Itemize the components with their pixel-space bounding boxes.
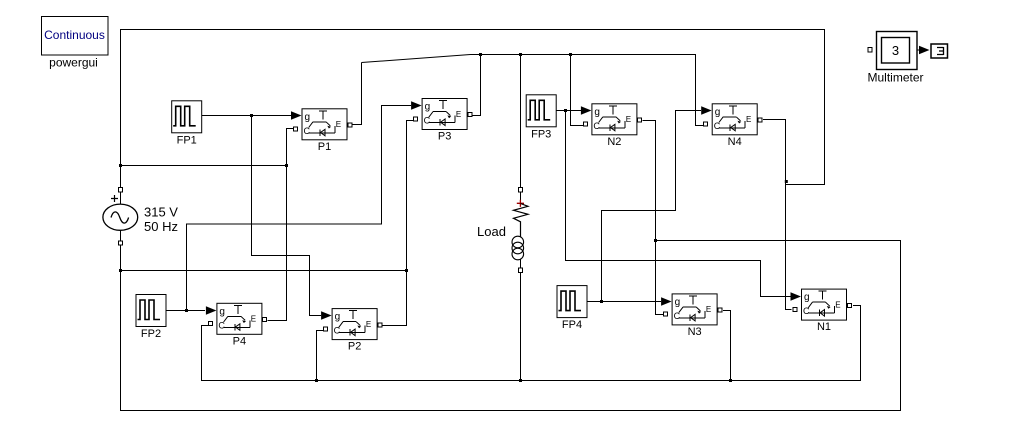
IGBT N1 <box>793 289 851 320</box>
wire load-bottom bus P4.C to N1.E <box>202 306 861 381</box>
wire load-top bus to N4.C <box>471 55 704 126</box>
IGBT P3 <box>414 99 472 130</box>
port square source - <box>118 241 122 245</box>
IGBT P1 <box>294 109 352 140</box>
wire FP4 branch to N4 gate <box>602 111 702 302</box>
node junction <box>405 269 408 272</box>
scope display block <box>931 44 948 58</box>
IGBT P4 <box>208 303 266 334</box>
arrowhead into P3 gate <box>411 101 422 109</box>
arrowhead into P1 gate <box>291 111 302 119</box>
node junction <box>315 379 318 382</box>
svg-text:N3: N3 <box>688 326 702 338</box>
pulse generator FP4 <box>557 286 587 318</box>
node junction <box>654 239 657 242</box>
wire P1.C - P4.E vertical <box>268 129 296 321</box>
svg-text:P1: P1 <box>318 141 331 153</box>
arrowhead into N2 gate <box>581 106 592 114</box>
svg-text:50 Hz: 50 Hz <box>144 219 178 234</box>
node junction <box>729 379 732 382</box>
arrowhead into N4 gate <box>701 106 712 114</box>
port square Load bottom <box>518 268 522 272</box>
node junction <box>564 109 567 112</box>
node junction <box>479 53 482 56</box>
pulse generator FP2 <box>136 295 166 327</box>
svg-text:Multimeter: Multimeter <box>867 71 923 85</box>
svg-text:FP3: FP3 <box>531 128 551 140</box>
arrowhead into N1 gate <box>791 292 802 300</box>
svg-text:P3: P3 <box>438 131 451 143</box>
svg-text:powergui: powergui <box>49 56 98 70</box>
svg-text:P2: P2 <box>348 341 361 353</box>
wire FP3 output to N2 gate <box>556 110 581 112</box>
pulse generator FP1 <box>172 101 202 133</box>
svg-text:N2: N2 <box>607 136 621 148</box>
node junction <box>285 164 288 167</box>
wire FP3 branch to N1 gate <box>566 111 791 297</box>
node junction <box>119 269 122 272</box>
node junction <box>119 164 122 167</box>
AC voltage source 315V 50Hz <box>103 192 178 241</box>
wire load-bottom stub <box>520 273 522 381</box>
svg-text:FP2: FP2 <box>141 328 161 340</box>
node junction <box>600 300 603 303</box>
wire FP1 branch to P2 gate <box>252 116 322 316</box>
powergui block <box>42 17 109 70</box>
svg-text:FP4: FP4 <box>562 319 582 331</box>
svg-text:N1: N1 <box>817 321 831 333</box>
wire load-top drop <box>520 55 522 188</box>
svg-text:Load: Load <box>477 224 506 239</box>
wire (sloped) <box>362 55 471 63</box>
wire source-top bus: left riser, top bus, right drop to node B <box>121 30 825 188</box>
Load series RL branch <box>477 192 528 268</box>
svg-text:FP1: FP1 <box>177 134 197 146</box>
node junction <box>569 53 572 56</box>
Multimeter block <box>867 32 923 85</box>
svg-text:315 V: 315 V <box>144 205 178 220</box>
arrowhead Multimeter output <box>919 46 930 54</box>
wire FP2 output to P4 gate <box>166 310 205 312</box>
svg-text:3: 3 <box>892 43 899 58</box>
arrowhead into P4 gate <box>206 306 217 314</box>
wire FP2 branch to P3 gate <box>187 106 412 311</box>
wire N4.E to N1.C <box>763 120 792 310</box>
wire N3.E drop <box>723 311 731 381</box>
pulse generator FP3 <box>526 95 556 127</box>
svg-text:Continuous: Continuous <box>44 28 105 42</box>
node junction <box>519 379 522 382</box>
node junction <box>785 180 788 183</box>
arrowhead into P2 gate <box>321 311 332 319</box>
wire source-bottom to bottom bus, right riser, to N2.E/N3.C node <box>121 241 901 411</box>
wire source-top branch to P1.C/P4.E riser <box>121 165 287 167</box>
arrowhead into N3 gate <box>661 297 672 305</box>
IGBT N3 <box>664 294 722 325</box>
svg-text:P4: P4 <box>233 335 246 347</box>
wire N2.E down to N3.C <box>643 121 664 315</box>
wire source-bottom line <box>121 270 407 272</box>
wire Multimeter output stub <box>917 49 922 51</box>
node junction <box>519 53 522 56</box>
port square Load top <box>518 188 522 192</box>
wire load-top bus to N2.C <box>571 55 584 126</box>
svg-text:N4: N4 <box>728 136 742 148</box>
wire P3.C - P2.E vertical <box>383 121 414 326</box>
wire P2.C drop <box>317 331 324 381</box>
node junction <box>185 309 188 312</box>
wire FP4 output to N3 gate <box>587 301 662 303</box>
node junction <box>250 114 253 117</box>
IGBT P2 <box>324 309 382 340</box>
wire P1.E riser to load-top bus <box>351 63 362 125</box>
IGBT N4 <box>704 104 762 135</box>
port square Multimeter input <box>868 48 872 52</box>
port square source + <box>118 188 122 192</box>
wire P3.E riser <box>472 55 481 116</box>
wire FP1 output to P1 gate <box>202 115 291 117</box>
IGBT N2 <box>583 104 641 135</box>
